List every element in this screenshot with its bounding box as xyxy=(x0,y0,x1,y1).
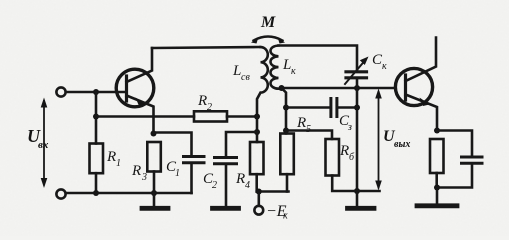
resistor R4 xyxy=(250,142,264,174)
wire Cz line left xyxy=(286,106,330,109)
node R1 tap xyxy=(93,114,99,120)
capacitor Ce (unlabeled) xyxy=(462,157,483,163)
capacitor C2 xyxy=(215,158,237,164)
capacitor Cz xyxy=(331,99,337,117)
transistor Q2 xyxy=(395,38,437,131)
svg-text:5: 5 xyxy=(306,124,311,135)
node Ck bottom xyxy=(354,85,360,91)
svg-text:R: R xyxy=(197,93,207,109)
node Lk bottom xyxy=(279,85,285,91)
svg-text:M: M xyxy=(260,14,276,31)
wire R3 bottom xyxy=(153,172,156,194)
transformer coupling arrow M xyxy=(254,37,283,41)
node Q2 emitter xyxy=(434,128,440,134)
wire to Uout arrow bottom xyxy=(357,190,380,193)
svg-text:R: R xyxy=(296,115,306,131)
arrow Uout xyxy=(378,92,380,188)
node R3 bottom xyxy=(151,190,157,196)
svg-text:1: 1 xyxy=(116,158,121,169)
node Cz right xyxy=(354,105,360,111)
svg-text:R: R xyxy=(131,163,141,179)
svg-text:2: 2 xyxy=(212,180,217,191)
input terminal top xyxy=(56,87,65,96)
wire base to R2 xyxy=(96,115,194,118)
wire R4 bottom xyxy=(255,174,258,191)
wire to R6 xyxy=(286,131,332,140)
transistor Q1 xyxy=(116,48,154,134)
inductor Lsv xyxy=(257,47,268,117)
svg-text:к: к xyxy=(283,211,288,222)
node R1 bottom xyxy=(93,190,99,196)
wire Re bottom xyxy=(435,173,438,188)
ground Q2 xyxy=(436,188,439,204)
resistor R1 xyxy=(90,144,104,174)
wire Ck/ground vertical xyxy=(356,79,359,191)
wire tank bottom rail to Q2 base xyxy=(281,87,396,90)
svg-text:к: к xyxy=(291,66,296,77)
resistor R6 xyxy=(326,139,340,176)
svg-text:вх: вх xyxy=(38,139,49,151)
wire -Ek rail xyxy=(257,190,289,193)
wire R1 bottom lead xyxy=(95,173,98,193)
node emitter ground xyxy=(434,185,440,191)
svg-text:R: R xyxy=(235,171,245,187)
wire cap bottom xyxy=(437,165,472,188)
node A2 (C2 tap) xyxy=(254,129,260,135)
node base/R1 xyxy=(93,89,99,95)
wire node A down xyxy=(256,117,259,143)
svg-text:1: 1 xyxy=(175,168,180,179)
node ground right xyxy=(354,188,360,194)
ground right xyxy=(356,191,359,206)
terminal -Ek xyxy=(254,206,263,215)
wire -Ek stem xyxy=(257,192,260,206)
svg-text:3: 3 xyxy=(141,172,147,183)
svg-text:2: 2 xyxy=(207,102,212,113)
wire R5 bottom xyxy=(286,174,289,191)
svg-text:L: L xyxy=(232,63,241,79)
wire R6 bottom xyxy=(332,176,357,192)
wire cap branch xyxy=(437,131,472,156)
wire C1 bottom xyxy=(190,164,193,193)
resistor R5 xyxy=(280,134,294,175)
svg-text:вых: вых xyxy=(394,139,410,150)
svg-text:св: св xyxy=(241,72,250,83)
wire Lk top rail xyxy=(279,46,358,71)
wire R2 right xyxy=(227,115,257,118)
svg-text:к: к xyxy=(382,61,387,72)
wire base lead xyxy=(66,91,127,94)
svg-text:R: R xyxy=(106,149,116,165)
node Q1 emitter xyxy=(151,131,157,137)
wire C2 branch xyxy=(226,132,257,156)
inductor Lk xyxy=(271,46,282,89)
svg-text:з: з xyxy=(347,122,352,133)
ground left xyxy=(153,193,156,206)
arrow Uin xyxy=(43,101,45,185)
node Cz left xyxy=(283,105,289,111)
wire bottom rail xyxy=(66,192,192,195)
node -Ek xyxy=(256,189,262,195)
wire Cz line right xyxy=(338,106,357,109)
svg-text:R: R xyxy=(339,143,349,159)
input terminal bottom xyxy=(56,189,65,198)
node A (R2/Lsv) xyxy=(254,114,260,120)
capacitor Ck (variable) xyxy=(346,72,367,78)
wire C1 branch xyxy=(154,133,192,156)
wire R1 vertical xyxy=(95,92,98,144)
wire top rail (Q1 collector to Lsv) xyxy=(152,47,260,48)
svg-text:L: L xyxy=(282,57,291,73)
resistor Re (unlabeled) xyxy=(430,139,444,173)
resistor R3 xyxy=(147,142,161,172)
wire C2 bottom xyxy=(225,165,228,206)
svg-text:4: 4 xyxy=(245,180,250,191)
ground C2 xyxy=(213,206,239,211)
node R6 tap xyxy=(283,128,289,134)
capacitor C1 xyxy=(184,157,205,163)
resistor R2 xyxy=(194,111,227,121)
wire base chain vertical xyxy=(282,88,287,134)
